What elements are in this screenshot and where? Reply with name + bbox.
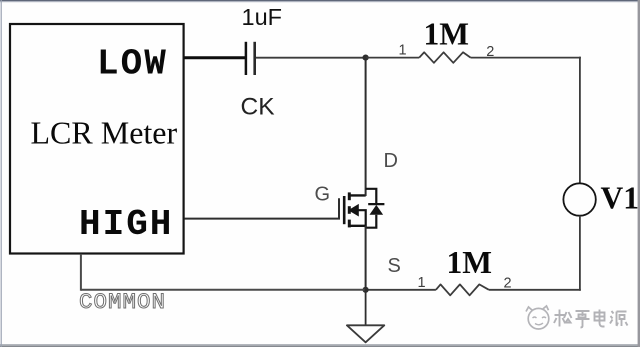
LCR Meter box xyxy=(10,24,184,254)
svg-text:COMMON: COMMON xyxy=(79,289,166,315)
channel segment middle xyxy=(348,206,351,214)
source lead xyxy=(349,225,366,227)
wire drain (node A down to Q1) xyxy=(365,58,367,196)
body arrow xyxy=(348,204,359,217)
capacitor CK 1uF xyxy=(246,42,255,75)
svg-text:G: G xyxy=(315,184,331,206)
svg-text:HIGH: HIGH xyxy=(79,204,173,245)
gate bar xyxy=(343,196,346,224)
svg-text:1uF: 1uF xyxy=(242,4,283,30)
wire COMMON rail xyxy=(81,289,366,291)
diode bottom lead xyxy=(366,215,377,228)
wire bottom rail to node B xyxy=(366,289,436,291)
wire HIGH to gate xyxy=(184,198,339,218)
wire R1 pin 2 to right rail xyxy=(471,57,581,59)
哥 xyxy=(576,311,590,328)
resistor R2 bottom 1M xyxy=(436,284,489,295)
svg-text:LCR Meter: LCR Meter xyxy=(31,115,178,151)
wire node A to R1 pin 1 xyxy=(366,57,420,59)
node B junction dot xyxy=(363,287,369,293)
wire node B to ground xyxy=(365,290,367,326)
svg-text:LOW: LOW xyxy=(97,44,168,85)
watermark text 松哥电源 xyxy=(554,310,628,328)
body diode branch xyxy=(366,189,385,228)
svg-text:S: S xyxy=(388,255,401,277)
diode cathode bar xyxy=(368,203,384,205)
body lead xyxy=(359,210,366,228)
svg-text:1: 1 xyxy=(418,275,426,291)
node A junction dot xyxy=(363,55,369,61)
wire C1 to node A xyxy=(256,57,366,59)
transistor Q1 MOSFET xyxy=(344,192,366,227)
svg-text:1M: 1M xyxy=(447,245,492,280)
drain lead xyxy=(349,194,366,196)
svg-text:2: 2 xyxy=(504,276,512,292)
ground xyxy=(347,325,384,342)
源 xyxy=(610,311,614,324)
wire riser to LCR meter common xyxy=(80,254,82,291)
channel segment bottom xyxy=(348,220,351,228)
resistor R1 top 1M xyxy=(419,52,470,63)
wire V1 to bottom rail xyxy=(579,216,581,291)
松 xyxy=(554,310,565,327)
wire bottom rail right segment xyxy=(489,289,581,291)
svg-text:V1: V1 xyxy=(601,180,640,215)
电 xyxy=(595,310,605,327)
svg-text:1M: 1M xyxy=(424,17,469,52)
voltage source V1 xyxy=(563,183,595,215)
wire right rail down to V1 xyxy=(579,57,581,184)
channel segment top xyxy=(348,192,351,200)
svg-text:CK: CK xyxy=(241,94,276,121)
wire LOW to C1 (bold) xyxy=(184,56,245,59)
wire source (Q1 down to node B) xyxy=(365,226,367,290)
diode top lead xyxy=(366,189,377,204)
svg-text:1: 1 xyxy=(399,42,407,58)
diode triangle xyxy=(370,205,384,215)
svg-text:D: D xyxy=(384,150,398,172)
watermark icon xyxy=(526,306,549,329)
